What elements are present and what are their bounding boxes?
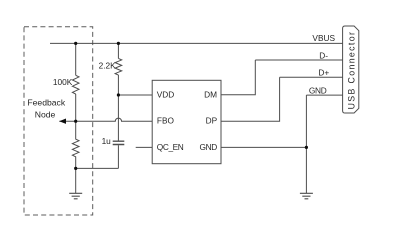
ground symbol right [300,193,313,199]
wire FBO with hop [59,118,152,121]
svg-text:Feedback: Feedback [27,97,65,107]
svg-text:GND: GND [199,142,217,152]
svg-text:USB Connector: USB Connector [346,31,356,110]
wire 2.2K vertical top [117,43,119,58]
svg-text:2.2K: 2.2K [99,60,117,70]
wire left vertical upper [75,43,77,75]
wire D+ [280,76,343,78]
wire left vertical to ground [75,168,77,193]
wire 2.2K vertical to cap [117,75,119,141]
wire cap bottom vertical [117,145,119,168]
resistor R2 2.2K [115,58,122,75]
svg-text:GND: GND [309,85,327,95]
capacitor C1 1u plates [113,141,125,144]
resistor R1 100K [72,75,79,94]
svg-text:FBO: FBO [157,115,175,125]
junction node arrow row [74,120,77,123]
svg-text:D-: D- [319,51,328,61]
svg-text:QC_EN: QC_EN [157,142,184,152]
wire bottom horizontal [76,167,119,169]
junction node top-left [74,42,77,45]
arrow feedback [59,119,66,124]
IC U1 box [152,80,221,163]
resistor R3 unlabeled [72,121,79,168]
svg-text:100K: 100K [53,77,73,87]
svg-text:VDD: VDD [157,90,175,100]
wire QC_EN stub [136,146,153,148]
wire DM to D- [221,60,255,95]
feedback node dashed box [24,27,93,215]
svg-text:DM: DM [204,90,217,100]
wire VBUS top [50,42,343,44]
wire DP to D+ [221,77,280,121]
svg-text:VBUS: VBUS [312,33,335,43]
wire VDD [118,94,152,96]
svg-text:1u: 1u [102,136,112,146]
svg-text:DP: DP [206,116,218,126]
junction node VDD [117,93,120,96]
wire GND to connector [306,94,342,96]
USB connector J1 body [343,26,359,113]
junction node bottom [74,167,77,170]
wire GND vertical [305,95,307,193]
junction node top 2.2K [117,42,120,45]
wire GND from IC [221,146,306,148]
junction node GND [305,146,308,149]
svg-text:Node: Node [35,110,56,120]
wire D- [255,59,342,61]
wire left vertical mid [75,94,77,121]
ground symbol left [69,193,82,199]
svg-text:D+: D+ [318,68,329,78]
